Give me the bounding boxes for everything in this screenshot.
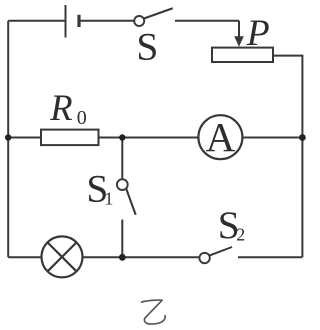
wire switch S to corner xyxy=(175,20,239,22)
junction node S1 bottom xyxy=(119,254,126,261)
wire top-left horizontal xyxy=(8,20,65,22)
wire lamp to switch S2 xyxy=(83,256,200,258)
switch S blade xyxy=(144,8,173,18)
wire right vertical lower xyxy=(301,138,303,258)
battery BT1 short plate xyxy=(77,15,80,27)
svg-text:P: P xyxy=(246,13,270,54)
wire R0 to ammeter xyxy=(99,137,199,139)
caption 乙 (second/B) drawn as path xyxy=(142,300,166,324)
switch S2 pivot circle xyxy=(199,253,209,263)
svg-text:R: R xyxy=(49,87,72,128)
switch S1 pivot circle xyxy=(117,179,128,190)
wire bottom-left to lamp xyxy=(8,256,41,258)
wire left vertical xyxy=(7,21,9,258)
switch S pivot circle xyxy=(134,16,144,26)
svg-text:2: 2 xyxy=(236,224,245,244)
lamp L circle xyxy=(42,236,83,277)
rheostat P arrow head xyxy=(234,36,244,47)
svg-text:A: A xyxy=(206,114,236,160)
resistor R0 box xyxy=(41,130,99,146)
wire middle-left to R0 xyxy=(8,137,41,139)
wire battery to switch S xyxy=(79,20,134,22)
switch S1 blade xyxy=(126,189,136,215)
switch S2 blade xyxy=(209,247,232,256)
lamp L cross stroke 1 xyxy=(48,243,77,272)
junction node S1 top xyxy=(119,134,125,140)
ammeter A circle xyxy=(198,115,242,159)
wire rheostat to right corner xyxy=(273,56,302,138)
junction node left xyxy=(5,134,11,140)
wire S1 branch upper xyxy=(121,138,123,180)
svg-text:S: S xyxy=(136,24,158,68)
junction node right xyxy=(299,134,306,141)
svg-text:0: 0 xyxy=(77,107,87,129)
wire corner down to arrow xyxy=(238,21,240,38)
battery BT1 long plate xyxy=(65,5,67,38)
wire ammeter to right junction xyxy=(242,137,302,139)
wire S2 fixed contact to right corner xyxy=(238,256,302,258)
wire S1 branch lower xyxy=(121,220,123,258)
lamp L cross stroke 2 xyxy=(48,243,77,272)
rheostat P box xyxy=(212,48,273,62)
svg-text:1: 1 xyxy=(104,189,113,209)
